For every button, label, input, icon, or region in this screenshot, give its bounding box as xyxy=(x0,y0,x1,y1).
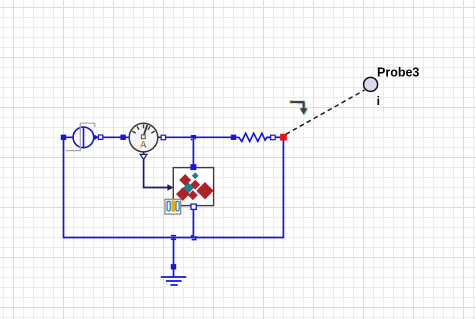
junction (filled square) on ground stem xyxy=(171,264,176,269)
svg-text:Probe3: Probe3 xyxy=(377,65,419,79)
junction glyph at T of subsystem top drop xyxy=(191,136,196,141)
wire: subsystem bottom port to bottom net xyxy=(192,209,194,238)
resistor R1 zigzag xyxy=(237,133,271,141)
current source I1 body (circle with bar) xyxy=(73,127,94,148)
junction (filled square) left of source xyxy=(61,135,66,140)
signal arrowhead entering subsystem xyxy=(167,184,173,191)
port (open square) at source output xyxy=(98,135,102,139)
ammeter A1 hub xyxy=(141,135,145,139)
port marker (through) at ground tee: two bars xyxy=(171,235,176,240)
probe drag cursor icon (bent arrow) xyxy=(289,100,307,115)
label Probe3 xyxy=(377,65,419,79)
subsystem top port (filled square) xyxy=(190,164,196,170)
thermal sub-icon box at subsystem corner xyxy=(165,199,181,214)
ground symbol xyxy=(161,270,186,286)
label i (probed signal) xyxy=(377,94,380,108)
ammeter A1 label A xyxy=(140,140,147,150)
current source I1 gray frame xyxy=(66,123,95,150)
probe Probe3 circle xyxy=(364,77,378,91)
subsystem bottom port (open square) xyxy=(191,204,196,209)
subsystem U1 icon diamonds xyxy=(176,172,214,201)
svg-text:A: A xyxy=(140,140,147,150)
port (open square) right of ammeter xyxy=(161,135,166,140)
wire: drop to subsystem top port xyxy=(192,137,194,165)
subsystem U1 box xyxy=(173,168,213,206)
svg-text:i: i xyxy=(377,94,380,108)
wire: ground stem from bottom net xyxy=(173,238,175,269)
junction (filled square) on resistor left xyxy=(231,135,236,140)
current source output arrow xyxy=(94,135,98,141)
node: red probe tap square xyxy=(280,134,287,141)
port (open square) right of resistor xyxy=(271,135,276,140)
junction glyph where subsystem bottom wire meets bottom net xyxy=(191,235,196,240)
wire: main horizontal net left run (source to resistor) xyxy=(64,136,237,138)
ammeter A1 body xyxy=(129,123,158,152)
wire: main horizontal net right run (resistor to node) xyxy=(267,136,282,138)
wire: outer loop (left vertical, bottom horizontal, right vertical up to node) xyxy=(64,137,284,237)
signal direction open triangle below ammeter xyxy=(140,154,147,159)
probe dashed connection line xyxy=(286,90,365,134)
junction (filled square) left of ammeter xyxy=(120,135,125,140)
signal wire from ammeter to subsystem (navy, with open triangle) xyxy=(143,153,169,188)
ammeter A1 needle xyxy=(143,125,147,137)
